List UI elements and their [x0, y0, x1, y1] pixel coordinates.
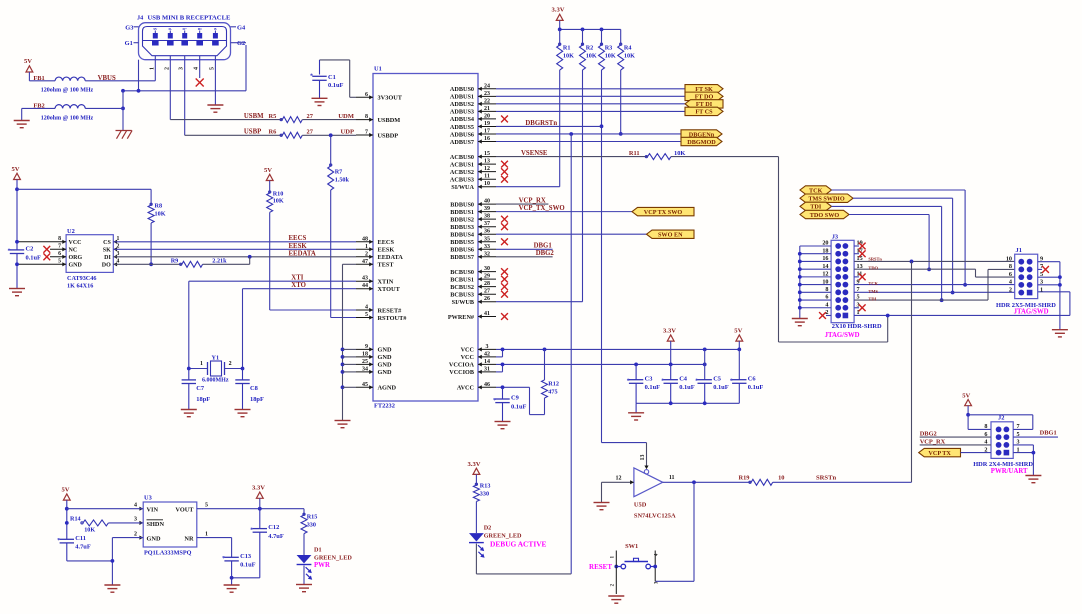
svg-text:11: 11 — [669, 475, 675, 481]
svg-text:*: * — [250, 527, 253, 533]
svg-text:SHDN: SHDN — [147, 521, 165, 528]
svg-text:FT2232: FT2232 — [374, 403, 395, 410]
svg-text:8: 8 — [1009, 263, 1012, 270]
svg-text:27: 27 — [307, 113, 314, 120]
svg-text:ACBUS0: ACBUS0 — [450, 154, 474, 161]
svg-text:C4: C4 — [679, 375, 688, 382]
svg-text:TDO: TDO — [868, 266, 878, 271]
svg-text:XTIN: XTIN — [378, 279, 394, 286]
svg-text:U2: U2 — [67, 228, 75, 235]
svg-text:8: 8 — [365, 114, 368, 120]
svg-text:DO: DO — [102, 263, 111, 269]
svg-text:ADBUS0: ADBUS0 — [450, 86, 474, 93]
svg-text:44: 44 — [362, 283, 368, 289]
svg-text:4: 4 — [194, 67, 200, 70]
svg-text:29: 29 — [484, 274, 490, 280]
svg-text:C7: C7 — [196, 385, 205, 392]
svg-text:18pF: 18pF — [250, 396, 264, 403]
svg-text:VSENSE: VSENSE — [521, 150, 548, 157]
svg-text:5V: 5V — [24, 58, 32, 65]
svg-text:PWR/UART: PWR/UART — [991, 468, 1028, 475]
svg-text:ADBUS3: ADBUS3 — [450, 109, 474, 116]
svg-text:1: 1 — [1040, 286, 1043, 293]
svg-text:EECS: EECS — [289, 235, 307, 242]
svg-text:42: 42 — [484, 351, 490, 357]
svg-text:10: 10 — [1006, 255, 1012, 262]
svg-text:3: 3 — [134, 517, 137, 523]
svg-text:VCP_RX: VCP_RX — [519, 198, 546, 205]
svg-text:SW1: SW1 — [625, 543, 638, 550]
svg-text:VCP TX: VCP TX — [928, 450, 951, 457]
svg-text:VCC: VCC — [461, 354, 474, 361]
svg-text:11: 11 — [484, 174, 490, 180]
svg-text:DBG1: DBG1 — [534, 243, 553, 250]
svg-text:JTAG/SWD: JTAG/SWD — [825, 332, 860, 339]
svg-text:19: 19 — [484, 121, 490, 127]
svg-text:VCC: VCC — [461, 347, 474, 354]
svg-text:7: 7 — [365, 130, 368, 136]
svg-text:C13: C13 — [240, 553, 251, 560]
svg-text:DEBUG ACTIVE: DEBUG ACTIVE — [490, 540, 547, 549]
svg-text:C5: C5 — [713, 375, 721, 382]
svg-text:10K: 10K — [273, 198, 284, 205]
svg-text:33: 33 — [484, 244, 490, 250]
svg-text:DBG1: DBG1 — [1040, 430, 1057, 437]
svg-text:EEDATA: EEDATA — [289, 250, 316, 257]
svg-text:RSTOUT#: RSTOUT# — [378, 315, 408, 322]
svg-text:DI: DI — [104, 255, 111, 261]
svg-text:4: 4 — [365, 305, 368, 311]
svg-text:R11: R11 — [629, 150, 640, 157]
svg-text:C12: C12 — [268, 524, 279, 531]
svg-text:5: 5 — [58, 258, 61, 264]
svg-text:USB MINI B RECEPTACLE: USB MINI B RECEPTACLE — [148, 15, 231, 22]
svg-text:*: * — [730, 379, 733, 385]
svg-text:R1: R1 — [563, 45, 571, 52]
svg-text:CAT93C46: CAT93C46 — [67, 275, 96, 282]
svg-text:ORG: ORG — [69, 255, 83, 261]
svg-text:13: 13 — [640, 455, 646, 461]
svg-text:R15: R15 — [307, 513, 318, 520]
svg-text:NC: NC — [69, 248, 78, 254]
svg-text:12: 12 — [484, 166, 490, 172]
svg-text:D-: D- — [169, 27, 173, 31]
svg-text:2: 2 — [229, 361, 232, 367]
svg-text:EECS: EECS — [378, 239, 395, 246]
svg-text:BDBUS5: BDBUS5 — [450, 239, 474, 246]
svg-text:J1: J1 — [1016, 247, 1022, 254]
svg-text:15: 15 — [484, 151, 490, 157]
svg-text:0.1uF: 0.1uF — [713, 384, 729, 391]
svg-text:RESET: RESET — [589, 563, 612, 571]
svg-text:GREEN_LED: GREEN_LED — [314, 554, 352, 561]
svg-text:1.50k: 1.50k — [335, 177, 350, 184]
svg-text:4.7uF: 4.7uF — [268, 533, 284, 540]
svg-text:2: 2 — [164, 67, 170, 70]
svg-text:GND: GND — [378, 369, 392, 376]
svg-text:GND: GND — [378, 354, 392, 361]
svg-text:G1: G1 — [125, 40, 133, 47]
svg-text:3: 3 — [486, 344, 489, 350]
svg-text:0.1uF: 0.1uF — [240, 562, 256, 569]
svg-text:TMS SWDIO: TMS SWDIO — [808, 196, 844, 203]
svg-text:BDBUS4: BDBUS4 — [450, 232, 474, 239]
svg-text:DBGRSTn: DBGRSTn — [525, 120, 557, 127]
svg-text:GND: GND — [378, 347, 392, 354]
svg-text:0.1uF: 0.1uF — [26, 254, 42, 261]
svg-text:10K: 10K — [84, 527, 95, 534]
svg-text:*: * — [493, 398, 496, 404]
svg-text:23: 23 — [484, 91, 490, 97]
svg-text:AGND: AGND — [378, 385, 397, 392]
svg-text:C2: C2 — [26, 246, 34, 253]
svg-text:35: 35 — [484, 236, 490, 242]
svg-text:4: 4 — [117, 258, 120, 264]
svg-text:2: 2 — [134, 531, 137, 537]
svg-text:10K: 10K — [563, 53, 574, 60]
svg-text:TEST: TEST — [378, 262, 395, 269]
svg-text:3: 3 — [117, 251, 120, 257]
svg-text:2: 2 — [117, 243, 120, 249]
svg-text:7: 7 — [58, 243, 61, 249]
svg-text:36: 36 — [484, 229, 490, 235]
svg-text:2X10 HDR-SHRD: 2X10 HDR-SHRD — [832, 323, 882, 330]
svg-text:21: 21 — [484, 106, 490, 112]
svg-text:3.3V: 3.3V — [468, 461, 481, 468]
svg-text:25: 25 — [362, 359, 368, 365]
svg-text:24: 24 — [484, 83, 490, 89]
svg-text:EESK: EESK — [289, 243, 308, 250]
svg-text:R6: R6 — [269, 129, 278, 136]
svg-text:J4: J4 — [137, 15, 143, 22]
svg-text:1: 1 — [149, 67, 155, 70]
svg-text:R14: R14 — [70, 516, 81, 523]
svg-text:R4: R4 — [624, 45, 632, 52]
svg-text:3V3OUT: 3V3OUT — [378, 95, 403, 102]
svg-text:AVCC: AVCC — [457, 385, 474, 392]
svg-text:TCK: TCK — [809, 187, 823, 194]
svg-text:0.1uF: 0.1uF — [328, 82, 344, 89]
svg-text:D2: D2 — [484, 525, 492, 532]
svg-text:0.1uF: 0.1uF — [679, 384, 695, 391]
svg-text:U1: U1 — [374, 66, 382, 73]
svg-text:VOUT: VOUT — [175, 507, 194, 514]
svg-text:C6: C6 — [748, 375, 757, 382]
svg-text:1: 1 — [205, 531, 208, 537]
svg-text:J3: J3 — [832, 234, 838, 241]
svg-text:32: 32 — [484, 251, 490, 257]
svg-text:USBDM: USBDM — [378, 117, 401, 124]
svg-text:BDBUS6: BDBUS6 — [450, 247, 474, 254]
svg-text:ADBUS2: ADBUS2 — [450, 101, 474, 108]
svg-text:28: 28 — [484, 281, 490, 287]
svg-text:1: 1 — [117, 236, 120, 242]
svg-text:NR: NR — [184, 536, 194, 543]
svg-text:ADBUS6: ADBUS6 — [450, 131, 474, 138]
svg-text:6.000MHz: 6.000MHz — [202, 378, 229, 384]
svg-text:20: 20 — [484, 113, 490, 119]
svg-text:10K: 10K — [586, 53, 597, 60]
svg-text:46: 46 — [484, 382, 490, 388]
svg-text:27: 27 — [484, 289, 490, 295]
svg-text:C1: C1 — [328, 74, 336, 81]
svg-text:4.7uF: 4.7uF — [75, 544, 91, 551]
svg-text:17: 17 — [484, 128, 490, 134]
svg-text:FT CS: FT CS — [695, 109, 713, 116]
svg-text:5V: 5V — [62, 487, 70, 494]
svg-text:5V: 5V — [734, 328, 742, 335]
svg-text:27: 27 — [307, 129, 314, 136]
svg-text:UDP: UDP — [340, 129, 354, 136]
svg-text:9: 9 — [365, 344, 368, 350]
svg-text:U5D: U5D — [634, 502, 647, 509]
svg-text:BDBUS0: BDBUS0 — [450, 201, 474, 208]
svg-text:3.3V: 3.3V — [252, 485, 265, 492]
svg-text:1: 1 — [200, 361, 203, 367]
svg-text:*: * — [222, 556, 225, 562]
svg-text:ACBUS1: ACBUS1 — [450, 161, 474, 168]
svg-text:D1: D1 — [314, 547, 322, 554]
svg-text:Y1: Y1 — [212, 354, 220, 361]
svg-text:BDBUS1: BDBUS1 — [450, 209, 474, 216]
svg-text:BDBUS3: BDBUS3 — [450, 224, 474, 231]
svg-text:2: 2 — [1009, 286, 1012, 293]
svg-text:C8: C8 — [250, 385, 258, 392]
svg-text:16: 16 — [484, 136, 490, 142]
svg-text:6: 6 — [365, 92, 368, 98]
svg-text:R5: R5 — [269, 113, 277, 120]
svg-text:VCP_RX: VCP_RX — [920, 438, 946, 445]
svg-text:0.1uF: 0.1uF — [511, 403, 527, 410]
svg-text:ADBUS4: ADBUS4 — [450, 116, 474, 123]
svg-text:R9: R9 — [171, 258, 179, 265]
svg-text:SRSTn: SRSTn — [868, 257, 882, 262]
svg-text:SI/WUA: SI/WUA — [451, 184, 474, 191]
svg-text:GREEN_LED: GREEN_LED — [484, 533, 522, 540]
svg-text:EEDATA: EEDATA — [378, 254, 404, 261]
svg-text:JTAG/SWD: JTAG/SWD — [1014, 309, 1049, 316]
svg-text:BCBUS2: BCBUS2 — [450, 284, 474, 291]
svg-text:14: 14 — [484, 359, 490, 365]
svg-text:SK: SK — [103, 248, 111, 254]
svg-text:4: 4 — [1009, 279, 1012, 286]
svg-text:TDO SWO: TDO SWO — [810, 212, 840, 219]
svg-text:10K: 10K — [605, 53, 616, 60]
svg-text:41: 41 — [484, 311, 490, 317]
svg-text:43: 43 — [362, 276, 368, 282]
svg-text:5V: 5V — [264, 167, 272, 174]
svg-text:R13: R13 — [480, 483, 491, 490]
svg-text:DBG2: DBG2 — [536, 250, 555, 257]
svg-text:38: 38 — [484, 214, 490, 220]
svg-text:6: 6 — [58, 251, 61, 257]
svg-text:330: 330 — [307, 521, 316, 528]
svg-text:2: 2 — [365, 251, 368, 257]
svg-text:34: 34 — [362, 366, 368, 372]
svg-text:GND: GND — [147, 536, 161, 543]
svg-text:10K: 10K — [624, 53, 635, 60]
svg-text:120ohm @ 100 MHz: 120ohm @ 100 MHz — [41, 87, 94, 93]
svg-text:BCBUS0: BCBUS0 — [450, 269, 474, 276]
svg-text:SWO EN: SWO EN — [658, 232, 683, 239]
svg-text:5: 5 — [209, 67, 215, 70]
svg-text:VBUS: VBUS — [98, 75, 116, 82]
svg-text:10K: 10K — [674, 150, 685, 157]
svg-text:G2: G2 — [237, 40, 245, 47]
svg-text:3: 3 — [179, 67, 185, 70]
svg-text:22: 22 — [484, 98, 490, 104]
svg-text:10K: 10K — [155, 211, 166, 218]
svg-text:USBP: USBP — [244, 129, 261, 136]
svg-text:R8: R8 — [155, 203, 163, 210]
svg-text:*: * — [310, 73, 313, 79]
svg-text:5V: 5V — [962, 393, 970, 400]
svg-text:8: 8 — [58, 236, 61, 242]
svg-text:1: 1 — [365, 244, 368, 250]
svg-text:C3: C3 — [645, 375, 653, 382]
svg-text:BCBUS3: BCBUS3 — [450, 291, 474, 298]
svg-text:*: * — [8, 249, 11, 255]
svg-text:XTO: XTO — [291, 282, 306, 289]
svg-text:40: 40 — [484, 199, 490, 205]
svg-text:U3: U3 — [144, 495, 152, 502]
svg-text:48: 48 — [362, 236, 368, 242]
svg-text:*: * — [695, 379, 698, 385]
svg-text:SN74LVC125A: SN74LVC125A — [634, 513, 676, 520]
svg-text:VCCIOB: VCCIOB — [449, 369, 474, 376]
svg-text:C9: C9 — [511, 395, 519, 402]
svg-text:D+: D+ — [183, 27, 187, 31]
svg-text:R10: R10 — [273, 190, 284, 197]
svg-text:475: 475 — [548, 389, 557, 396]
svg-text:ID: ID — [198, 27, 202, 31]
svg-text:31: 31 — [484, 366, 490, 372]
svg-text:VCP TX SWO: VCP TX SWO — [644, 209, 683, 216]
svg-text:PWREN#: PWREN# — [448, 314, 475, 321]
svg-text:J2: J2 — [998, 415, 1004, 422]
svg-text:R3: R3 — [605, 45, 613, 52]
svg-text:47: 47 — [362, 259, 368, 265]
svg-text:2.21k: 2.21k — [212, 258, 227, 265]
svg-text:DBG2: DBG2 — [920, 431, 937, 438]
svg-text:G4: G4 — [237, 25, 246, 32]
svg-text:3.3V: 3.3V — [552, 7, 565, 14]
svg-text:18: 18 — [362, 351, 368, 357]
svg-text:12: 12 — [616, 476, 622, 482]
svg-text:VCCIOA: VCCIOA — [449, 362, 475, 369]
svg-text:G3: G3 — [125, 25, 133, 32]
svg-text:5V: 5V — [12, 166, 20, 173]
svg-text:ACBUS2: ACBUS2 — [450, 169, 474, 176]
svg-text:SI/WUB: SI/WUB — [452, 299, 474, 306]
svg-text:ADBUS7: ADBUS7 — [450, 139, 474, 146]
svg-text:TDI: TDI — [868, 297, 876, 302]
svg-text:4: 4 — [134, 503, 137, 509]
svg-text:0.1uF: 0.1uF — [748, 384, 764, 391]
svg-text:PQ1LA333MSPQ: PQ1LA333MSPQ — [144, 550, 192, 557]
svg-text:BCBUS1: BCBUS1 — [450, 276, 474, 283]
svg-text:EESK: EESK — [378, 247, 395, 254]
svg-text:VIN: VIN — [147, 507, 159, 514]
svg-text:10: 10 — [484, 181, 490, 187]
svg-text:0.1uF: 0.1uF — [645, 384, 661, 391]
svg-text:PWR: PWR — [314, 562, 330, 569]
svg-text:RESET#: RESET# — [378, 307, 403, 314]
svg-text:SRSTn: SRSTn — [816, 475, 836, 482]
svg-text:5: 5 — [365, 312, 368, 318]
svg-text:13: 13 — [484, 159, 490, 165]
svg-text:39: 39 — [484, 206, 490, 212]
svg-text:R19: R19 — [739, 475, 750, 482]
svg-text:6: 6 — [1009, 271, 1012, 278]
svg-text:5V: 5V — [153, 27, 158, 31]
svg-text:XTOUT: XTOUT — [378, 286, 401, 293]
svg-text:1K 64X16: 1K 64X16 — [67, 283, 93, 290]
svg-text:37: 37 — [484, 221, 490, 227]
svg-text:ACBUS3: ACBUS3 — [450, 176, 474, 183]
svg-text:BDBUS7: BDBUS7 — [450, 254, 474, 261]
svg-text:VCC: VCC — [69, 240, 82, 246]
svg-text:DBGMOD: DBGMOD — [687, 139, 716, 146]
svg-text:5: 5 — [205, 503, 208, 509]
svg-text:120ohm @ 100 MHz: 120ohm @ 100 MHz — [41, 115, 94, 121]
svg-text:*: * — [57, 538, 60, 544]
svg-text:R2: R2 — [586, 45, 594, 52]
svg-text:30: 30 — [484, 266, 490, 272]
svg-text:ADBUS1: ADBUS1 — [450, 94, 474, 101]
svg-text:45: 45 — [362, 382, 368, 388]
svg-text:TDI: TDI — [810, 204, 822, 211]
svg-text:USBM: USBM — [244, 113, 264, 120]
svg-text:GND: GND — [69, 263, 83, 269]
svg-text:18pF: 18pF — [196, 396, 210, 403]
svg-text:GND: GND — [378, 362, 392, 369]
svg-text:TMS: TMS — [868, 289, 878, 294]
svg-text:*: * — [627, 379, 630, 385]
svg-text:330: 330 — [480, 491, 489, 498]
svg-text:BDBUS2: BDBUS2 — [450, 216, 474, 223]
svg-text:R12: R12 — [548, 381, 559, 388]
svg-text:VCP_TX_SWO: VCP_TX_SWO — [519, 205, 565, 212]
svg-text:R7: R7 — [335, 169, 343, 176]
svg-text:10: 10 — [778, 475, 784, 482]
svg-text:*: * — [661, 379, 664, 385]
svg-text:USBDP: USBDP — [378, 132, 399, 139]
svg-text:XTI: XTI — [291, 274, 303, 281]
svg-text:26: 26 — [484, 296, 490, 302]
svg-text:UDM: UDM — [338, 113, 355, 120]
svg-text:3.3V: 3.3V — [663, 328, 676, 335]
svg-text:TCK: TCK — [868, 281, 878, 286]
svg-text:CS: CS — [103, 240, 111, 246]
svg-text:ADBUS5: ADBUS5 — [450, 124, 474, 131]
svg-text:C11: C11 — [75, 535, 86, 542]
